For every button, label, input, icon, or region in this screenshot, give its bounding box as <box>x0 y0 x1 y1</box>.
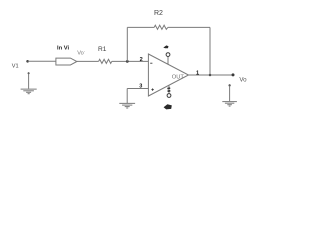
wire op-amp pin 3 to ground corner <box>127 88 148 90</box>
ground at output <box>222 84 237 106</box>
terminal dot Vo <box>232 73 235 76</box>
svg-text:Vo: Vo <box>239 76 247 83</box>
feedback wire top right segment <box>168 26 210 28</box>
junction node 2 <box>126 60 129 63</box>
wire R1 to op-amp pin 2 <box>112 60 149 62</box>
feedback wire top left segment <box>127 26 154 28</box>
feedback wire right vertical <box>209 27 211 75</box>
svg-text:Vo’: Vo’ <box>77 49 85 56</box>
svg-text:R2: R2 <box>154 10 163 17</box>
resistor R2 <box>154 10 168 29</box>
op-amp U1 body <box>148 54 188 96</box>
junction at output node <box>209 74 212 77</box>
terminal dot V1 <box>26 60 29 63</box>
ground below V1 <box>21 72 37 93</box>
svg-text:In Vi: In Vi <box>57 46 70 52</box>
op-amp inverting input minus sign <box>150 62 152 64</box>
ground at pin 3 <box>119 103 135 108</box>
input port In Vi <box>56 46 77 66</box>
resistor R1 <box>98 46 112 63</box>
op-amp non-inverting input plus sign <box>151 88 153 90</box>
svg-text:V1: V1 <box>12 64 19 70</box>
op-amp V- power pin <box>164 86 172 110</box>
svg-text:2: 2 <box>140 57 143 63</box>
svg-text:OUT: OUT <box>172 75 185 81</box>
wire pin 3 vertical drop <box>126 89 128 104</box>
wire V1 to In Vi block <box>28 60 56 62</box>
feedback wire left vertical <box>126 27 128 61</box>
op-amp V+ power pin <box>163 45 170 64</box>
wire In Vi to R1 <box>77 60 99 62</box>
output wire pin 1 to Vo <box>189 74 234 76</box>
svg-text:R1: R1 <box>98 46 107 53</box>
